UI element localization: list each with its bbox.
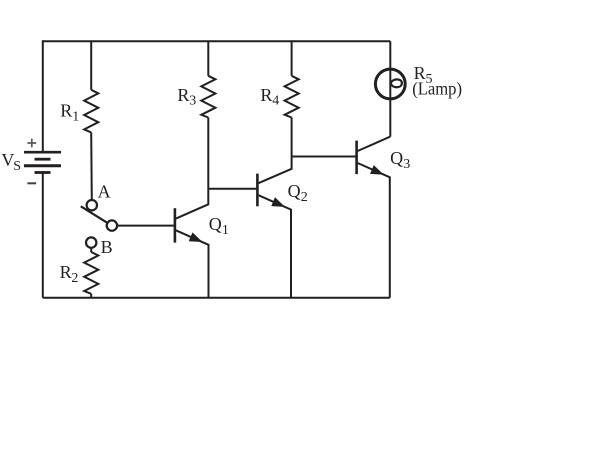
- svg-text:1: 1: [72, 109, 79, 124]
- transistor Q2: [257, 157, 291, 298]
- svg-text:R: R: [60, 262, 72, 282]
- resistor R1: [84, 41, 98, 200]
- transistor Q1: [175, 189, 209, 298]
- resistor R2: [84, 248, 98, 298]
- lamp R5 wire: [389, 41, 391, 136]
- svg-text:R: R: [260, 85, 272, 105]
- wire left rail lower (battery - to bottom rail): [42, 173, 44, 298]
- svg-text:A: A: [98, 182, 111, 202]
- resistor R4: [285, 41, 299, 156]
- battery plus sign: [27, 139, 36, 148]
- svg-text:3: 3: [403, 157, 410, 172]
- svg-text:R: R: [177, 85, 189, 105]
- svg-text:(Lamp): (Lamp): [412, 78, 462, 99]
- svg-text:Q: Q: [390, 148, 403, 168]
- lamp R5 filament loop: [391, 79, 402, 87]
- wire R3 junction to Q2 base: [208, 188, 256, 190]
- svg-text:3: 3: [189, 94, 196, 109]
- switch pole: [107, 220, 117, 230]
- svg-text:R: R: [60, 101, 72, 121]
- svg-text:Q: Q: [209, 214, 222, 234]
- wire pole to Q1 base: [117, 225, 174, 227]
- wire R4 junction to Q3 base: [292, 156, 356, 158]
- svg-text:2: 2: [301, 190, 308, 205]
- battery VS: [24, 152, 61, 172]
- switch contact B: [86, 237, 96, 247]
- svg-text:1: 1: [222, 223, 229, 238]
- svg-text:2: 2: [71, 271, 78, 286]
- switch lever: [81, 206, 108, 223]
- svg-text:4: 4: [272, 94, 279, 109]
- transistor Q1 emitter arrow: [189, 232, 203, 242]
- lamp R5 circle: [375, 69, 405, 99]
- switch contact A: [87, 200, 97, 210]
- svg-text:Q: Q: [288, 181, 301, 201]
- resistor R3: [201, 41, 215, 189]
- transistor Q3: [357, 137, 391, 298]
- wire left rail upper (top rail to battery +): [42, 40, 44, 152]
- transistor Q2 emitter arrow: [271, 197, 285, 207]
- battery minus sign: [27, 182, 36, 184]
- wire top rail: [43, 40, 391, 42]
- transistor Q3 emitter arrow: [370, 165, 384, 175]
- svg-text:S: S: [13, 159, 21, 174]
- svg-text:B: B: [101, 237, 113, 257]
- wire bottom rail: [43, 297, 390, 299]
